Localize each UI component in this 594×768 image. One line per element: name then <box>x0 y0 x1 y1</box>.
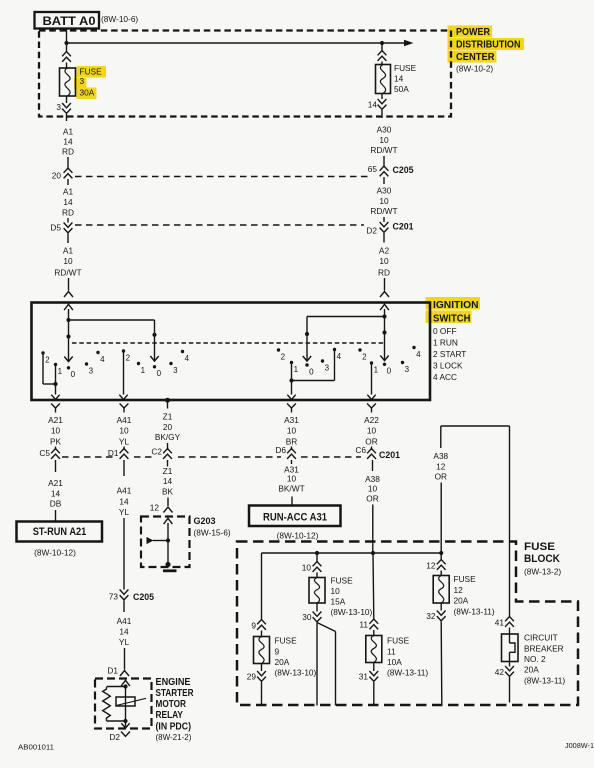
connector cavity above fuse 12 <box>437 560 446 565</box>
wire A41 to C205 lower <box>123 518 125 590</box>
svg-text:RELAY: RELAY <box>156 710 184 721</box>
svg-text:10: 10 <box>367 426 377 436</box>
dashed line connector row segment 2 <box>134 456 156 458</box>
switch pole 2 contact 0 <box>153 365 156 368</box>
svg-text:(8W-10-12): (8W-10-12) <box>34 548 76 558</box>
svg-text:RD/WT: RD/WT <box>54 268 81 278</box>
fuse F12 <box>433 576 449 604</box>
wire A1 feed inside switch <box>68 309 70 361</box>
svg-text:3: 3 <box>89 366 94 375</box>
junction node bus fuse 11 <box>371 551 375 555</box>
wiper arrow pole 3 <box>303 356 311 361</box>
wire A1 to connector C201 <box>67 218 69 223</box>
svg-text:A21: A21 <box>48 415 63 425</box>
svg-text:14: 14 <box>163 476 173 486</box>
wire A2 feed inside switch <box>384 309 386 361</box>
svg-text:14: 14 <box>63 137 73 147</box>
svg-text:D1: D1 <box>107 666 118 676</box>
wire link to wiper 2 <box>69 319 155 321</box>
wire relay coil feed <box>125 685 127 721</box>
wire into fuse 10 <box>316 573 318 578</box>
connector cavity below fuse 12 <box>437 611 446 616</box>
svg-text:3 LOCK: 3 LOCK <box>433 361 463 371</box>
svg-text:14: 14 <box>51 489 61 499</box>
svg-text:12: 12 <box>454 585 464 595</box>
svg-text:BREAKER: BREAKER <box>524 644 564 654</box>
svg-text:10: 10 <box>287 426 297 436</box>
svg-text:CIRCUIT: CIRCUIT <box>524 633 558 643</box>
wire bus drop to fuse 9 <box>261 553 263 620</box>
arrow A1 input inside switch <box>64 304 73 310</box>
connector at relay output D2 <box>121 732 130 737</box>
svg-text:STARTER: STARTER <box>156 688 195 699</box>
svg-text:FUSE: FUSE <box>454 574 477 584</box>
svg-text:FUSE: FUSE <box>524 541 555 553</box>
fuse F3 <box>60 68 76 96</box>
svg-text:0: 0 <box>71 370 76 379</box>
svg-text:3: 3 <box>80 76 85 86</box>
switch pole 1 contact 1 <box>54 363 57 366</box>
svg-text:OR: OR <box>366 494 378 504</box>
wire A30 below C205 <box>383 177 385 184</box>
svg-text:14: 14 <box>119 627 129 637</box>
svg-text:20A: 20A <box>454 596 469 606</box>
svg-text:0: 0 <box>157 369 162 378</box>
junction node A2 feed lower <box>382 330 386 334</box>
circuit breaker CB2 <box>502 634 519 662</box>
node junction at battery feed <box>64 41 68 45</box>
svg-text:3: 3 <box>56 102 61 112</box>
arrow into G203 <box>164 518 173 524</box>
svg-text:DISTRIBUTION: DISTRIBUTION <box>456 38 521 50</box>
wire to relay resistor top <box>107 686 126 688</box>
svg-text:0: 0 <box>309 367 314 376</box>
svg-text:1: 1 <box>141 366 146 375</box>
wire A1 leaving PDC <box>66 114 68 121</box>
node junction to fuse 14 <box>380 41 384 45</box>
svg-text:4: 4 <box>100 355 105 364</box>
switch pole 4 contact 2 <box>358 348 361 351</box>
wire A2 into ignition switch <box>384 278 386 291</box>
connector cavity above fuse 9 <box>257 620 266 625</box>
in-line connector row C6 <box>367 449 376 454</box>
svg-text:20: 20 <box>163 422 173 432</box>
arrow A22 output inside switch <box>367 395 375 400</box>
svg-text:(8W-10-12): (8W-10-12) <box>277 531 319 541</box>
svg-text:14: 14 <box>394 73 404 83</box>
svg-text:15A: 15A <box>331 597 346 607</box>
arrow A2 input inside switch <box>380 304 389 310</box>
wire Z1 to C2 row <box>167 443 169 450</box>
switch pole 2 contact 3 <box>169 362 172 365</box>
wire fuse 10 output diagonal branch <box>317 623 336 632</box>
svg-text:4: 4 <box>416 350 421 359</box>
svg-text:A1: A1 <box>63 127 74 137</box>
connector cavity below fuse 14 <box>378 99 387 104</box>
svg-text:A31: A31 <box>284 415 299 425</box>
wire link to wiper 3 <box>307 316 385 318</box>
svg-text:J008W-1: J008W-1 <box>565 743 594 750</box>
connector at ignition switch A1 input <box>64 292 73 298</box>
connector at relay input D1 <box>120 671 129 677</box>
junction node wiper 3 feed <box>305 332 309 336</box>
wire A38 to fuse block bus <box>372 505 374 554</box>
svg-text:C201: C201 <box>379 450 401 461</box>
svg-text:10A: 10A <box>387 657 402 667</box>
svg-text:YL: YL <box>119 507 130 517</box>
svg-text:RD/WT: RD/WT <box>370 145 397 155</box>
connector A31 below switch <box>287 404 296 409</box>
wire from BATT A0 into PDC <box>66 28 68 51</box>
svg-text:1: 1 <box>294 365 299 374</box>
svg-text:2 START: 2 START <box>433 349 466 359</box>
wire A30 leaving PDC <box>381 110 383 118</box>
switch pole 3 contact 4 <box>333 348 336 351</box>
wire fuse 11 output <box>373 682 375 706</box>
svg-text:(8W-13-11): (8W-13-11) <box>454 607 495 617</box>
svg-text:POWER: POWER <box>456 26 490 38</box>
wire A31 below D6 <box>291 460 293 464</box>
svg-text:12: 12 <box>426 561 436 571</box>
fuse F9 <box>254 637 270 664</box>
svg-text:(IN PDC): (IN PDC) <box>156 722 192 733</box>
svg-text:20: 20 <box>52 171 62 181</box>
svg-text:3: 3 <box>325 363 330 372</box>
svg-text:73: 73 <box>109 592 119 602</box>
switch pole 3 contact 3 <box>321 359 324 362</box>
wire into fuse 9 <box>261 631 263 637</box>
svg-text:11: 11 <box>359 620 368 630</box>
wire into fuse 14 <box>381 62 383 65</box>
svg-text:MOTOR: MOTOR <box>156 699 187 710</box>
wire A2 below C201 <box>383 233 385 243</box>
svg-text:10: 10 <box>379 256 389 266</box>
circuit destination box ST-RUN A21 <box>17 522 103 542</box>
wire top bus B+ with arrow <box>67 42 407 44</box>
svg-text:10: 10 <box>51 426 61 436</box>
junction node bus fuse 10 <box>315 551 319 555</box>
wire A1 into ignition switch <box>68 278 70 291</box>
resistor in relay <box>103 687 111 721</box>
connector cavity above circuit breaker <box>505 617 514 622</box>
switch pole 3 contact 0 <box>305 363 308 366</box>
svg-text:RUN-ACC A31: RUN-ACC A31 <box>263 511 327 523</box>
svg-text:A38: A38 <box>433 451 448 461</box>
wire fuse 9 output <box>261 682 263 706</box>
svg-text:AB001011: AB001011 <box>18 745 54 752</box>
dashed connector line C205 <box>75 176 368 178</box>
junction node bus fuse 12 <box>439 551 443 555</box>
svg-text:0: 0 <box>387 367 392 376</box>
wire pole1 contact2 strap <box>42 353 44 384</box>
svg-text:A22: A22 <box>364 415 379 425</box>
wire A30 to connector C205 <box>383 156 385 166</box>
wire below fuse 10 <box>316 603 318 612</box>
svg-text:C201: C201 <box>393 222 415 233</box>
ground symbol bar <box>163 569 177 572</box>
switch pole 2 contact 1 <box>137 362 140 365</box>
in-line connector C205 lower <box>120 590 129 595</box>
wire A30 to connector C201 <box>383 217 385 222</box>
dashed line connector row segment 1 <box>62 456 114 458</box>
junction node relay top <box>123 684 127 688</box>
svg-text:20A: 20A <box>275 657 290 667</box>
svg-text:30: 30 <box>302 612 312 622</box>
power distribution center dashed box <box>39 31 451 117</box>
svg-text:A2: A2 <box>379 246 390 256</box>
wire pole3 contact1 to A31 output <box>291 363 293 395</box>
svg-text:G203: G203 <box>194 516 216 527</box>
in-line connector row D1 <box>120 449 129 454</box>
arrow A31 output inside switch <box>287 395 295 400</box>
wire Z1 to G203 <box>167 498 169 507</box>
svg-text:10: 10 <box>368 484 378 494</box>
svg-text:10: 10 <box>302 563 312 573</box>
svg-text:10: 10 <box>331 586 341 596</box>
svg-text:1: 1 <box>58 367 63 376</box>
junction node G203 <box>166 538 170 542</box>
junction node A1 feed lower <box>66 334 70 338</box>
arrow out of relay <box>125 721 127 728</box>
svg-text:A30: A30 <box>377 186 392 196</box>
wire into fuse 3 <box>66 63 68 69</box>
switch pole 2 contact 2 <box>122 349 125 352</box>
connector A21 below switch <box>51 404 60 409</box>
wire into fuse 12 <box>440 571 442 576</box>
svg-text:BK/WT: BK/WT <box>278 484 304 494</box>
svg-text:Z1: Z1 <box>163 412 173 422</box>
svg-text:A41: A41 <box>117 415 132 425</box>
wire A1 to connector C205 <box>67 157 69 170</box>
fuse block dashed outline <box>237 542 578 706</box>
connector cavity above fuse 14 <box>378 51 387 56</box>
svg-text:OR: OR <box>365 437 377 447</box>
svg-text:2: 2 <box>126 353 131 362</box>
svg-text:CENTER: CENTER <box>456 51 495 63</box>
svg-text:9: 9 <box>275 647 280 657</box>
wire circuit breaker output <box>509 677 511 703</box>
svg-text:FUSE: FUSE <box>275 636 298 646</box>
wire A21 below C5 <box>55 460 57 472</box>
wire A31 to D6 row <box>291 447 293 451</box>
svg-text:A30: A30 <box>377 125 392 135</box>
connector A22 below switch <box>367 404 376 409</box>
in-line connector C201 right half <box>380 222 389 227</box>
svg-text:C6: C6 <box>355 445 366 455</box>
wiper arrow pole 2 <box>150 356 158 361</box>
junction node wiper 2 feed <box>152 333 156 337</box>
arrow A41 output inside switch <box>119 395 127 400</box>
svg-text:A38: A38 <box>365 474 380 484</box>
ground terminal node <box>165 562 170 567</box>
svg-text:32: 32 <box>426 611 436 621</box>
svg-text:FUSE: FUSE <box>387 636 410 646</box>
wire A41 below C205 <box>123 601 125 613</box>
svg-text:RD: RD <box>62 147 74 157</box>
svg-text:BATT A0: BATT A0 <box>43 16 96 28</box>
ground takeoff wire <box>153 540 168 542</box>
wire Z1 below C2 <box>167 460 169 467</box>
svg-text:(8W-13-2): (8W-13-2) <box>524 567 561 577</box>
connector cavity above fuse 10 <box>313 562 322 567</box>
svg-text:DB: DB <box>50 499 62 509</box>
wiper arrow pole 1 <box>64 357 72 362</box>
svg-text:2: 2 <box>45 355 50 364</box>
svg-text:YL: YL <box>119 637 130 647</box>
fuse F10 <box>309 578 325 604</box>
switch pole 4 contact 3 <box>401 361 404 364</box>
svg-text:(8W-15-6): (8W-15-6) <box>194 528 231 538</box>
in-line connector row C2 <box>163 449 172 454</box>
svg-text:A1: A1 <box>63 187 74 197</box>
in-line connector row C5 <box>51 449 60 454</box>
wire A38 below C6 <box>372 460 374 471</box>
svg-text:BK/GY: BK/GY <box>155 432 181 442</box>
svg-text:11: 11 <box>387 647 396 657</box>
svg-text:BLOCK: BLOCK <box>524 553 560 565</box>
junction node pole3 strap <box>289 378 293 382</box>
svg-text:Z1: Z1 <box>163 466 173 476</box>
wire fuse block bus <box>262 552 442 554</box>
switch pole 2 contact 4 <box>181 350 184 353</box>
junction node pole1 strap <box>53 382 57 386</box>
wire fuse 10 output left branch <box>316 623 318 706</box>
svg-text:4: 4 <box>337 352 342 361</box>
relay coil K1 <box>116 697 135 706</box>
wire pole4 contact1 to A22 output <box>371 363 373 395</box>
svg-text:FUSE: FUSE <box>331 576 354 586</box>
svg-text:D5: D5 <box>50 223 61 233</box>
switch pole 4 contact 4 <box>412 346 415 349</box>
svg-text:(8W-21-2): (8W-21-2) <box>156 733 192 742</box>
wire pole2 contact2 to A41 output <box>123 351 125 395</box>
switch pole 3 contact 2 <box>277 348 280 351</box>
highlighter marks (yellow) <box>448 26 493 38</box>
ground takeoff arrowhead <box>147 537 154 544</box>
junction node A1 feed upper <box>66 318 70 322</box>
svg-text:D2: D2 <box>366 226 377 236</box>
svg-text:A1: A1 <box>63 246 74 256</box>
battery feed header box BATT A0 <box>35 12 100 29</box>
wire A38 12 OR riser <box>440 426 442 448</box>
wire bus to fuse 12 <box>440 553 442 560</box>
wire pole3 strap to contact4 <box>292 380 335 382</box>
wire bus to fuse 10 <box>316 553 318 562</box>
wire A1 below C201 <box>67 234 69 244</box>
junction node relay bottom <box>123 719 127 723</box>
ignition switch box <box>32 303 431 401</box>
svg-text:NO. 2: NO. 2 <box>524 654 546 664</box>
switch pole 1 contact 4 <box>96 351 99 354</box>
svg-text:(8W-13-10): (8W-13-10) <box>331 607 373 617</box>
svg-text:(8W-10-6): (8W-10-6) <box>101 14 138 24</box>
wire A38 12 overhead run <box>441 425 510 427</box>
dashed line connector row segment 3 <box>178 456 281 458</box>
connector cavity below fuse 11 <box>369 671 378 676</box>
svg-text:SWITCH: SWITCH <box>433 312 471 324</box>
svg-text:3: 3 <box>173 366 178 375</box>
svg-text:(8W-10-2): (8W-10-2) <box>456 64 493 74</box>
wire A31 into RUN-ACC box <box>291 497 293 506</box>
connector cavity below circuit breaker <box>505 666 514 671</box>
svg-text:3: 3 <box>405 365 410 374</box>
dashed connector line C201 <box>75 224 364 226</box>
svg-text:1: 1 <box>374 365 379 374</box>
wire bus to fuse 11 <box>372 553 375 620</box>
svg-text:14: 14 <box>63 197 73 207</box>
svg-text:30A: 30A <box>80 88 95 98</box>
svg-text:9: 9 <box>251 621 256 631</box>
switch pole 4 contact 1 <box>370 361 373 364</box>
svg-text:14: 14 <box>119 497 129 507</box>
svg-text:C205: C205 <box>393 165 415 176</box>
wire below fuse 11 <box>373 663 375 672</box>
svg-text:10: 10 <box>379 135 389 145</box>
svg-text:0 OFF: 0 OFF <box>433 326 457 336</box>
svg-text:C5: C5 <box>39 448 50 458</box>
svg-text:A21: A21 <box>48 478 63 488</box>
svg-text:RD: RD <box>378 268 390 278</box>
svg-text:(8W-13-10): (8W-13-10) <box>275 668 317 678</box>
svg-text:31: 31 <box>359 672 369 682</box>
connector cavity below fuse 10 <box>313 612 322 617</box>
dashed line connector row segment 4 <box>301 456 361 458</box>
arrow into relay <box>121 680 130 686</box>
wire fuse 12 output <box>440 622 443 705</box>
svg-text:50A: 50A <box>394 84 409 94</box>
switch pole 3 contact 1 <box>290 361 293 364</box>
svg-text:(8W-13-11): (8W-13-11) <box>524 676 565 686</box>
wire from relay resistor bottom <box>107 720 126 722</box>
svg-text:A41: A41 <box>117 616 132 626</box>
svg-text:14: 14 <box>368 100 378 110</box>
svg-text:4 ACC: 4 ACC <box>433 372 457 382</box>
svg-text:42: 42 <box>495 667 505 677</box>
svg-text:12: 12 <box>150 503 160 513</box>
wire below fuse 9 <box>261 664 263 672</box>
svg-text:FUSE: FUSE <box>394 63 417 73</box>
svg-text:PK: PK <box>50 437 62 447</box>
wire A22 to C6 row <box>371 447 373 451</box>
svg-text:A41: A41 <box>117 486 132 496</box>
svg-text:ST-RUN A21: ST-RUN A21 <box>33 526 87 538</box>
connector at ground G203 <box>164 507 173 513</box>
svg-text:10: 10 <box>119 426 129 436</box>
wire into fuse 11 <box>373 630 375 636</box>
arrow A21 output inside switch <box>51 395 59 400</box>
wire below fuse 3 <box>66 96 68 103</box>
svg-text:10: 10 <box>63 256 73 266</box>
wire pole1 contact1 to A21 output <box>55 365 57 395</box>
wire inside G203 <box>167 523 169 564</box>
wire A1 below C205 <box>67 179 69 185</box>
connector cavity above fuse 11 <box>369 619 378 624</box>
fuse F11 <box>366 636 382 663</box>
svg-text:10: 10 <box>287 474 297 484</box>
wire below fuse 14 <box>381 94 383 100</box>
svg-text:ENGINE: ENGINE <box>156 677 191 688</box>
switch pole 4 contact 0 <box>383 363 386 366</box>
wire A38 12 below label <box>440 483 442 554</box>
svg-text:12: 12 <box>436 462 446 472</box>
svg-text:2: 2 <box>281 352 286 361</box>
connector A41 below switch <box>120 404 129 409</box>
wire A21 to C205 <box>55 447 57 451</box>
connector cavity above fuse 3 <box>62 52 71 57</box>
svg-text:FUSE: FUSE <box>80 67 103 77</box>
svg-text:D2: D2 <box>109 732 120 742</box>
svg-text:C205: C205 <box>133 592 155 603</box>
